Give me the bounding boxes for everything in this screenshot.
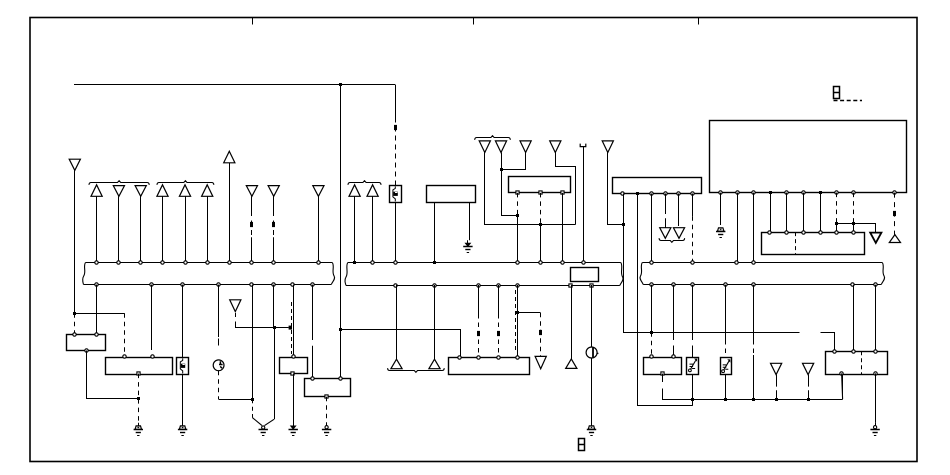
ground G6 <box>465 243 470 246</box>
connector arrow T10 down <box>268 186 279 197</box>
wire K2 bottom dashed to ground <box>138 374 140 423</box>
wire C1 to bus2 <box>583 147 585 263</box>
connector arrow T28 down <box>771 363 782 374</box>
wire bus2 to box M5 pin3 with splice <box>498 285 500 314</box>
label box on bus W2 <box>571 268 599 282</box>
connector arrow T1 down <box>69 159 80 170</box>
wire M2-2 long route down <box>638 194 693 406</box>
pin K2-3 bottom <box>137 372 140 375</box>
connector arrow T13 up <box>367 185 378 197</box>
pin M3-1 <box>719 191 722 194</box>
wire companion dashed to K3 <box>291 302 293 354</box>
pin K4-2 <box>339 377 342 380</box>
connector arrow T15 down <box>495 141 506 153</box>
connector arrow T12 up <box>349 185 360 197</box>
connector arrow T14 down <box>479 141 490 153</box>
group bracket B3 <box>348 181 381 185</box>
control unit box M1 <box>509 177 571 193</box>
wire T11 to bus1 <box>318 196 320 263</box>
wire bus2 to box M5 pin4 <box>517 285 519 358</box>
connector arrow T4 down <box>135 186 146 197</box>
pin M5-2 <box>477 356 480 359</box>
pin M3-3 <box>752 191 755 194</box>
group bracket B4 <box>475 136 511 140</box>
wire branch to arrow T26 dashed with splice <box>518 312 541 314</box>
wire T18 down then right to trunk node <box>608 153 624 225</box>
wire trunk continues to relay box K4 pin <box>340 329 342 378</box>
wire T2 to bus1 <box>96 196 98 263</box>
pin K2-2 <box>151 355 154 358</box>
pin M7-4 bottom <box>840 372 843 375</box>
top border section tick 1 <box>252 18 254 25</box>
wire node down to K2 pin1 dashed <box>124 313 126 356</box>
connector arrow T3 down <box>113 186 124 197</box>
wire K4 dashed to ground <box>326 397 328 423</box>
wire F4 to bus2 <box>395 202 397 262</box>
junction M3-8 node <box>835 222 838 225</box>
wire M2-4 to arrow T19 <box>665 194 667 215</box>
pin K4-1 <box>311 377 314 380</box>
bus W3 bottom pins <box>650 283 653 286</box>
wire T6 to bus1 <box>185 196 187 263</box>
bus bar W1 (left harness) <box>86 262 333 264</box>
pin K2-1 <box>123 355 126 358</box>
connector arrow T21 down bold <box>870 233 881 243</box>
relay box K2 <box>106 358 173 375</box>
pin M4-3 <box>802 231 805 234</box>
wire T4 to bus1 <box>140 196 142 263</box>
pin K1-2 <box>95 333 98 336</box>
wire bus2 to box M5 pin2 with splice <box>478 285 480 314</box>
junction K2/K1 node <box>137 397 140 400</box>
wire T10 to bus1 with splice <box>273 196 275 211</box>
wire bus1 to lamp E1 <box>218 285 220 337</box>
bus bar W2 (middle harness) <box>348 262 621 264</box>
pin M2-6 <box>691 192 694 195</box>
wire M2-1 trunk down to junction T18 <box>623 194 625 225</box>
wire E2 to ground <box>591 358 593 426</box>
connector symbol S2 (two-terminal) <box>579 439 585 451</box>
connector arrow T26 down <box>535 356 546 368</box>
wire M3-6 to box M4 <box>803 193 805 233</box>
pin K3 top <box>292 355 295 358</box>
ground G1 <box>135 426 141 429</box>
pin M5-4 <box>516 356 519 359</box>
connector arrow T9 down <box>246 186 257 197</box>
wire bus2 to arrow T27 <box>571 285 573 359</box>
connector arrow T27 up <box>566 359 577 369</box>
junction trunk/branch <box>339 328 342 331</box>
pin M2-5 <box>677 192 680 195</box>
wire node to arrow T21 <box>837 224 876 233</box>
bus W1 top pins <box>95 261 98 264</box>
wire M3-10 dashed with splice to arrow T22 <box>894 193 896 235</box>
wire F2 to net node <box>692 375 694 393</box>
wire M7-5 to ground <box>875 373 877 422</box>
wire bus3 dashed to fuse F3 <box>725 285 727 340</box>
connector box M5 <box>449 358 530 375</box>
top border section tick 3 <box>698 18 700 25</box>
pin M3-10 <box>893 191 896 194</box>
junction vee right node <box>273 326 276 329</box>
wire M1-3 to bus2 <box>562 193 564 263</box>
wire M3-7 to box M4 <box>820 193 822 233</box>
junction T1 node <box>73 312 76 315</box>
wire T12 to bus2 <box>354 196 356 263</box>
pin M4-5 <box>835 231 838 234</box>
bus bar W3 (right harness) <box>642 262 882 264</box>
connector arrow T6 up <box>179 185 190 197</box>
wire bus1 to K2 pin2 <box>151 285 153 350</box>
fuse F4 <box>390 186 402 203</box>
pin M5-3 <box>497 356 500 359</box>
wire M3-2 to bus3 <box>737 193 739 263</box>
fuse F1 <box>177 358 189 375</box>
connector arrow T20 down <box>673 228 684 239</box>
wire junction T1 node horizontal <box>75 313 125 315</box>
junction M0 at bus2 <box>433 261 436 264</box>
junction M3-9 node <box>852 222 855 225</box>
wire node horizontal to switch drop <box>219 399 253 401</box>
relay box K1 <box>67 335 106 351</box>
wire M2-6 to bus3 part dashed <box>692 194 694 217</box>
pin M3-2 <box>736 191 739 194</box>
wire junction dashed to ground vee left arm <box>252 399 254 414</box>
pin M6-2 <box>672 355 675 358</box>
wire T28 to net <box>776 375 778 387</box>
pin M7-5 bottom <box>874 372 877 375</box>
junction pin M3-7 <box>819 191 822 194</box>
lamp E2 <box>586 347 597 358</box>
connector symbol S1 (two-terminal) <box>834 87 840 99</box>
dashed lead of S1 <box>834 100 863 102</box>
fuse F3 <box>721 358 732 375</box>
junction M2-1/T18 <box>622 223 625 226</box>
wire M3-8 dashed to node then M4 <box>836 193 838 224</box>
junction T14-net <box>539 223 542 226</box>
relay box K3 <box>280 358 308 374</box>
pin M3-5 <box>785 191 788 194</box>
ground G9 <box>874 426 877 429</box>
wire bus1 to fuse F1 <box>182 285 184 358</box>
pin M1-1 <box>516 191 519 194</box>
junction T29 net <box>807 398 810 401</box>
wire T29 to net <box>808 375 810 387</box>
wire T13 to bus2 <box>372 196 374 263</box>
junction pin M2-2 <box>636 192 639 195</box>
connector arrow T11 down <box>313 186 324 197</box>
wire bus3 to box M7 pin2 <box>853 285 855 352</box>
wire M3-4 to box M4 <box>770 193 772 233</box>
ground G3 with terminal ring <box>262 426 265 429</box>
connector arrow T2 up <box>91 185 102 197</box>
wire M7-4 down to net <box>842 373 843 399</box>
group bracket B1 <box>89 181 149 185</box>
wire F1 to ground <box>182 374 184 426</box>
pin M2-1 <box>621 192 624 195</box>
wire bus1 to relay K4 <box>312 285 314 340</box>
pin M3-6 <box>802 191 805 194</box>
pin M2-4 <box>664 192 667 195</box>
connector arrow T16 down <box>520 141 531 153</box>
wire M3-5 to box M4 <box>786 193 788 233</box>
junction F2 net <box>691 398 694 401</box>
bus W3 top pins <box>650 261 653 264</box>
wire node to box M6 pin1 dashed <box>651 332 653 356</box>
wire T23 dash then L to dashed pair <box>235 313 237 317</box>
junction T15/T16 <box>500 168 503 171</box>
wire E1 dashed to node <box>218 371 220 400</box>
pin M6-1 <box>650 355 653 358</box>
box M4 internal partition dashed <box>795 232 797 255</box>
pin M7-3 <box>874 350 877 353</box>
wire drop x395 solid part <box>395 85 397 118</box>
junction at x651 crossing <box>650 331 653 334</box>
ECU box M3 <box>710 121 907 193</box>
connector arrow T8 up tall <box>224 151 235 163</box>
junction branch T26 <box>516 311 519 314</box>
pin K3 bottom <box>291 372 294 375</box>
top border section tick 2 <box>473 18 475 25</box>
wire M6 bottom to net node <box>662 374 664 382</box>
wire M3-1 to ground <box>720 193 722 225</box>
wire T9 to bus1 with splice <box>251 196 253 211</box>
wire M2-1 trunk down between buses <box>624 225 800 333</box>
wire K1 bottom L to node <box>87 351 139 399</box>
connector arrow T24 up <box>391 359 402 369</box>
connector arrow T23 down <box>230 300 241 312</box>
wire M3-3 to bus3 <box>753 193 755 263</box>
wire M3-9 dashed to node then M4 <box>853 193 855 224</box>
relay box K4 <box>305 379 351 397</box>
wire T8 to bus1 <box>229 163 231 263</box>
lamp E1 <box>213 360 224 371</box>
wire T15 down to junction then to node <box>502 153 518 216</box>
pin M2-3 <box>650 192 653 195</box>
pin M6-3 bottom <box>661 372 664 375</box>
pin M7-1 <box>833 350 836 353</box>
connector box M0 <box>427 186 476 203</box>
connector arrow T7 up <box>202 185 213 197</box>
pin M4-2 <box>785 231 788 234</box>
bus W2 top pins <box>371 261 374 264</box>
wire bus1 to relay K3 solid <box>293 285 295 355</box>
wire T17 routed to T14 net <box>556 153 576 225</box>
pin M4-1 <box>768 231 771 234</box>
connector arrow T29 down <box>803 363 814 374</box>
ground G2 <box>179 426 185 429</box>
connector arrow T17 down <box>550 141 561 153</box>
pin M4-6 <box>852 231 855 234</box>
wire segment B to box M7 pin1 <box>821 333 835 352</box>
bus W2 bottom pins <box>394 284 397 287</box>
ground G4 <box>291 426 296 429</box>
connector box M4 <box>762 233 865 255</box>
pin M7-2 <box>852 350 855 353</box>
connector arrow T19 down <box>660 228 671 239</box>
connector arrow T5 up <box>157 185 168 197</box>
wire M2-5 to arrow T20 <box>678 194 680 227</box>
junction on top feed <box>339 83 342 86</box>
wire F3 to net node <box>725 375 727 393</box>
wire bus3 to node x651 <box>651 285 653 333</box>
group bracket B2 <box>157 181 214 185</box>
junction pin M3-4 <box>769 191 772 194</box>
wire M1-1 to bus2 dashed then solid <box>517 193 519 216</box>
pin M3-9 <box>852 191 855 194</box>
bus W1 bottom pins <box>95 283 98 286</box>
pin K4-3 bottom <box>325 395 328 398</box>
wire K3 to ground <box>293 374 295 423</box>
wire T5 to bus1 <box>162 196 164 263</box>
wire bus2 to arrow T24 <box>396 285 398 359</box>
wire bus1 to relay box K1 pin2 <box>96 285 98 335</box>
wire bus3 to box M6 pin2 <box>673 285 675 340</box>
wire top horizontal feed <box>74 84 395 86</box>
fuse F2 <box>687 358 699 375</box>
wire bus3 to box M7 pin3 <box>875 285 877 352</box>
pin K1-1 <box>73 333 76 336</box>
junction x753 net <box>752 398 755 401</box>
wire net rise to box M7 <box>842 374 844 400</box>
ground G7 <box>588 426 594 429</box>
wire branch to connector box pin <box>341 330 461 358</box>
junction F3 net <box>724 398 727 401</box>
pin M1-3 <box>561 191 564 194</box>
junction T28 net <box>775 398 778 401</box>
junction switch drop <box>251 398 254 401</box>
ground G5 <box>325 426 328 429</box>
wire bus3 to net node x753 <box>753 285 755 340</box>
terminal cup C1 <box>580 144 586 147</box>
pin M5-1 <box>458 356 461 359</box>
wire T3 to bus1 <box>118 196 120 263</box>
box M7 internal partition dashed <box>861 351 863 374</box>
pin K1-3 bottom <box>85 349 88 352</box>
group rail B6 under T24 T25 <box>388 368 445 372</box>
wire companion dashed pin4 <box>515 290 517 352</box>
connector arrow T22 up <box>889 235 900 243</box>
wire stub segment A end <box>623 331 625 333</box>
group bracket B5 under T19 T20 <box>659 238 685 242</box>
pin M4-4 <box>819 231 822 234</box>
wire bus2 to lamp E2 <box>591 285 593 347</box>
junction T12 at bus2 <box>353 261 356 264</box>
wire node to K1 pin1 dashed <box>74 313 76 335</box>
wire M0 right pin to ground <box>469 203 471 241</box>
wire M1-2 to bus2 dashed then solid <box>540 193 542 225</box>
wire T1 down to junction <box>74 170 76 313</box>
wire M0 left pin to bus2 <box>434 203 436 263</box>
wire M2-3 to bus3 <box>651 194 653 263</box>
wire bus1 pin down to junction <box>252 285 254 400</box>
junction T15-net at pin wire <box>516 214 519 217</box>
connector box M7 <box>826 352 888 375</box>
wire vertical trunk x340 to junction <box>340 85 342 329</box>
wire bus3 to fuse F2 <box>692 285 694 340</box>
wire T16 joining T15 <box>502 153 526 170</box>
connector arrow T18 down <box>602 141 613 153</box>
wire T14 down then right to node <box>485 153 576 225</box>
pin M1-2 <box>539 191 542 194</box>
pin M3-8 <box>835 191 838 194</box>
connector box M6 <box>644 358 682 375</box>
connector arrow T25 up <box>429 359 440 369</box>
junction box M2 <box>613 178 702 194</box>
wire drop x395 dashed part with splice <box>395 118 397 186</box>
wire bus1 T10-pin down through node to vee right arm <box>273 285 275 328</box>
wire bus2 to arrow T25 <box>434 285 436 359</box>
ground G8 <box>718 228 724 231</box>
wire T7 to bus1 <box>207 196 209 263</box>
